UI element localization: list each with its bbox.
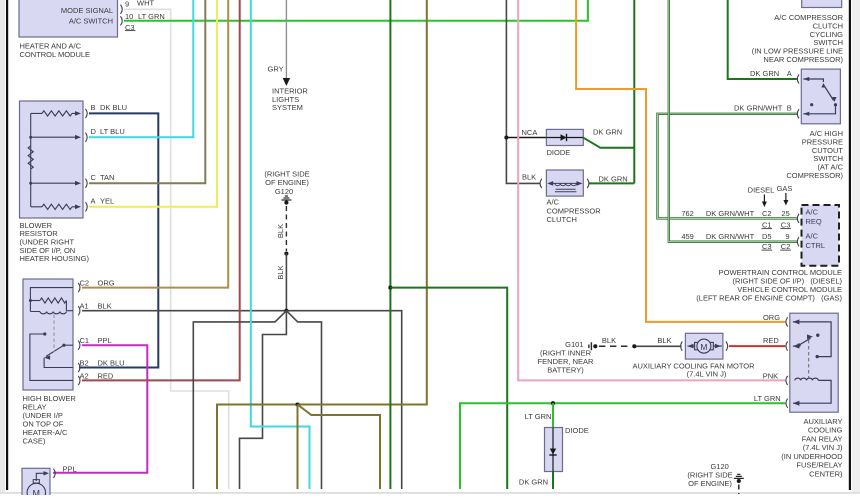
wire TAN bottom net	[217, 0, 427, 489]
svg-text:PPL: PPL	[63, 465, 77, 474]
svg-text:DK BLU: DK BLU	[100, 103, 127, 112]
svg-text:DIESEL: DIESEL	[748, 186, 775, 195]
resistor pin bracket	[86, 109, 88, 118]
svg-text:FUSE/RELAY: FUSE/RELAY	[796, 461, 842, 470]
svg-text:WHT: WHT	[137, 0, 154, 8]
svg-text:COMPRESSOR: COMPRESSOR	[547, 206, 602, 215]
resistor internal bus	[30, 113, 32, 206]
powertrain control module caption	[696, 268, 842, 302]
svg-text:OF ENGINE): OF ENGINE)	[688, 479, 732, 488]
junction DK GRN	[388, 286, 392, 290]
diode2 bar	[549, 454, 556, 456]
relay switch arm arrow	[44, 355, 50, 359]
diode2 internal line	[552, 428, 554, 472]
svg-text:ORG: ORG	[763, 313, 780, 322]
fan relay coil	[795, 378, 819, 380]
switch arm diagonal	[823, 85, 833, 101]
fan relay RED lead	[793, 345, 799, 347]
fan motor shaft	[688, 345, 723, 347]
blower motor circle	[27, 483, 45, 500]
switch arm arrow down	[832, 97, 836, 102]
wire BLK dashed from G120	[285, 206, 287, 251]
svg-text:CLUTCH: CLUTCH	[547, 215, 577, 224]
wire GRY to interior lights	[285, 0, 287, 79]
ground G120 upper symbol	[281, 196, 291, 200]
junction BLK diode tap	[504, 135, 508, 139]
junction BLK dashed-solid	[284, 251, 288, 255]
svg-text:BLK: BLK	[522, 173, 536, 182]
relay coil element	[40, 312, 66, 314]
svg-text:A/C: A/C	[806, 208, 819, 217]
connector C1 underline	[762, 228, 773, 230]
clutch coil bumps	[555, 183, 577, 185]
wire TAN branch down	[297, 405, 299, 490]
relay pin bracket	[78, 283, 80, 292]
svg-text:PNK: PNK	[763, 372, 778, 381]
wire DK GRN/WHT circuit 459	[669, 0, 798, 242]
heater module caption	[20, 42, 91, 60]
wire DK BLU pin B	[79, 113, 158, 367]
wire LT GRN to diode	[552, 403, 554, 427]
wire DK GRN branch right	[390, 288, 507, 489]
svg-text:10: 10	[125, 12, 133, 21]
wire LT GRN bottom	[460, 403, 785, 489]
svg-text:25: 25	[781, 209, 789, 218]
clutch bracket right	[587, 179, 589, 188]
wire LT BLU pin D	[89, 0, 193, 137]
cycling switch caption	[752, 13, 844, 64]
wire PPL pin C1	[53, 345, 147, 473]
ground G120 upper dot	[284, 201, 288, 205]
svg-text:A2: A2	[80, 371, 89, 380]
blower motor M1	[22, 468, 50, 498]
relay resistor element	[30, 300, 40, 302]
row C internal wire	[31, 182, 76, 184]
svg-text:B: B	[787, 104, 792, 113]
resistor pin bracket	[86, 133, 88, 142]
wire DK GRN below diode	[552, 472, 554, 490]
wire DK GRN/WHT pin B	[658, 114, 798, 219]
svg-text:AUXILIARY: AUXILIARY	[803, 417, 842, 426]
wire WHT from pin 9	[124, 9, 229, 489]
svg-text:COOLING: COOLING	[808, 426, 843, 435]
fan relay pin bracket	[786, 317, 788, 326]
a/c high pressure cutout switch S2	[801, 69, 840, 124]
svg-text:CENTER): CENTER)	[809, 469, 843, 478]
wire BLK to junction	[285, 254, 287, 311]
switch pin B arrow	[803, 112, 809, 116]
blower resistor caption	[20, 221, 90, 263]
interior lights system note	[272, 86, 308, 112]
fan motor brush left	[695, 342, 699, 349]
svg-text:C2: C2	[80, 279, 90, 288]
relay pin bracket	[78, 376, 80, 385]
high pressure cutout caption	[786, 129, 843, 180]
relay switch B2 lead	[44, 358, 73, 368]
svg-text:(7.4L VIN J): (7.4L VIN J)	[803, 443, 843, 452]
svg-text:G120: G120	[275, 187, 293, 196]
pcm pin bracket 762	[797, 214, 799, 223]
pin A bracket	[797, 74, 799, 83]
svg-text:DIODE: DIODE	[547, 148, 571, 157]
blower motor pin arrow	[44, 471, 50, 475]
relay actuator dashed	[53, 315, 55, 353]
svg-text:A/C: A/C	[806, 232, 819, 241]
blower motor stem	[33, 480, 39, 483]
fan relay arm arrow	[807, 334, 813, 339]
switch pin A shaft	[803, 79, 823, 82]
clutch bracket left	[540, 179, 542, 188]
resistor element row B	[42, 111, 72, 116]
junction BLK center	[284, 309, 288, 313]
svg-text:DK GRN/WHT: DK GRN/WHT	[706, 209, 755, 218]
fan motor arrow right	[715, 344, 721, 349]
svg-text:762: 762	[681, 209, 694, 218]
svg-text:C2: C2	[762, 209, 772, 218]
diode D2	[545, 428, 563, 472]
svg-text:DK BLU: DK BLU	[98, 359, 125, 368]
svg-text:CTRL: CTRL	[806, 241, 826, 250]
svg-text:C1: C1	[762, 220, 772, 229]
diode D1	[546, 129, 583, 145]
relay internal C2 lead	[30, 288, 73, 312]
svg-text:REQ: REQ	[806, 217, 822, 226]
fan motor bracket left	[681, 342, 683, 351]
svg-text:TAN: TAN	[100, 173, 114, 182]
pin 10 bracket	[121, 16, 123, 25]
svg-text:DK GRN/WHT: DK GRN/WHT	[734, 104, 783, 113]
svg-text:DK GRN: DK GRN	[599, 174, 628, 183]
fan relay arm tip dot	[816, 334, 819, 337]
svg-text:C3: C3	[762, 242, 772, 251]
svg-text:RED: RED	[763, 336, 779, 345]
pin B arrow	[75, 111, 81, 116]
wire BLK dashed G120 lower	[738, 485, 740, 495]
svg-text:(LEFT REAR OF ENGINE COMPT): (LEFT REAR OF ENGINE COMPT) (GAS)	[696, 293, 842, 302]
wire BLK junction down jog	[240, 311, 287, 489]
fan motor circle	[697, 339, 711, 353]
blower resistor R1	[20, 101, 84, 218]
wire BLK a/c vertical	[506, 0, 540, 183]
wire LT GRN from pin 10	[124, 0, 588, 21]
gas arrow shaft	[785, 193, 787, 202]
auxiliary cooling fan motor M2	[685, 333, 723, 359]
diode symbol	[561, 134, 567, 140]
relay internal junction	[29, 299, 32, 302]
switch contact arrow up	[821, 83, 825, 88]
clutch arrow right	[577, 181, 583, 186]
svg-text:HEATER HOUSING): HEATER HOUSING)	[20, 254, 90, 263]
wire RED pin A2	[82, 0, 240, 380]
svg-text:BLK: BLK	[602, 336, 616, 345]
svg-text:CASE): CASE)	[23, 436, 46, 445]
resistor pin bracket	[86, 179, 88, 188]
svg-text:BLK: BLK	[276, 224, 285, 238]
fan relay caption	[781, 417, 843, 479]
pin 9 bracket	[121, 5, 123, 14]
diesel arrow shaft	[763, 195, 765, 204]
svg-text:PPL: PPL	[98, 336, 112, 345]
svg-text:MODE SIGNAL: MODE SIGNAL	[61, 6, 113, 15]
svg-text:B: B	[91, 103, 96, 112]
wire DK GRN from clutch	[589, 182, 635, 184]
svg-text:9: 9	[785, 232, 789, 241]
high blower relay caption	[23, 394, 77, 446]
relay pin bracket	[78, 363, 80, 372]
fan motor brush right	[710, 342, 714, 349]
svg-text:M: M	[33, 489, 41, 496]
diode bar	[566, 134, 568, 141]
connector C3 underline	[125, 30, 136, 32]
svg-text:M: M	[700, 342, 707, 352]
relay switch arm	[46, 345, 64, 356]
svg-text:LT GRN: LT GRN	[138, 12, 165, 21]
ground G101 dot	[593, 344, 597, 348]
fan relay actuator dashed	[808, 340, 810, 378]
high blower relay K1	[23, 279, 73, 390]
svg-text:CONTROL MODULE: CONTROL MODULE	[20, 50, 91, 59]
svg-text:B2: B2	[80, 359, 89, 368]
junction on bus row D	[29, 136, 32, 139]
svg-text:DK GRN: DK GRN	[750, 69, 779, 78]
switch center dot	[810, 103, 813, 106]
svg-text:BLK: BLK	[657, 336, 671, 345]
svg-text:D: D	[91, 127, 97, 136]
wire DK GRN vertical a/c	[633, 0, 635, 183]
svg-text:(7.4L VIN J): (7.4L VIN J)	[687, 370, 727, 379]
svg-text:GAS: GAS	[777, 184, 793, 193]
pin B bracket	[797, 109, 799, 118]
a/c compressor clutch cycling switch S1	[802, 0, 842, 8]
svg-text:LT GRN: LT GRN	[754, 394, 781, 403]
svg-text:DK GRN/WHT: DK GRN/WHT	[706, 232, 755, 241]
wire BLK dashed G101	[599, 345, 631, 347]
diesel arrow	[762, 202, 767, 208]
wire LT BLU second	[251, 0, 310, 489]
diode internal line	[546, 137, 583, 139]
svg-text:DK GRN: DK GRN	[519, 478, 548, 487]
blower motor pin bracket	[54, 469, 56, 478]
svg-text:DIODE: DIODE	[565, 426, 589, 435]
wire BLK to fan motor	[636, 345, 682, 347]
powertrain control module U2 dashed	[802, 205, 840, 266]
svg-text:(IN UNDERHOOD: (IN UNDERHOOD	[781, 452, 843, 461]
blower motor internal lead	[36, 473, 46, 481]
svg-text:LT GRN: LT GRN	[525, 412, 552, 421]
wire NCA to diode	[506, 137, 546, 139]
fan relay contact dot	[816, 355, 819, 358]
switch pin A arrow	[803, 77, 809, 81]
pin D arrow	[75, 135, 81, 140]
fan relay pin bracket	[786, 376, 788, 385]
resistor element row A	[42, 204, 72, 209]
svg-text:C: C	[91, 173, 97, 182]
fan relay ORG arrow	[793, 319, 800, 324]
connector C3 underline	[780, 228, 791, 230]
diode2 symbol	[550, 449, 556, 455]
switch contact dot B	[834, 103, 837, 106]
svg-text:A: A	[91, 196, 96, 205]
svg-text:A: A	[787, 69, 792, 78]
svg-text:C2: C2	[781, 242, 791, 251]
connector C2b underline	[780, 249, 791, 251]
a/c compressor clutch L1	[546, 170, 583, 196]
clutch core bars	[555, 189, 577, 192]
svg-text:DK GRN: DK GRN	[593, 128, 622, 137]
fan motor arrow left	[688, 344, 694, 349]
wire DK GRN from diode	[583, 138, 634, 148]
relay switch A2 contact	[30, 334, 73, 380]
svg-text:9: 9	[125, 0, 129, 9]
resistor pin bracket	[86, 202, 88, 211]
wire BLK junction right	[286, 311, 401, 489]
svg-text:ORG: ORG	[98, 279, 115, 288]
gas arrow	[783, 200, 788, 206]
svg-text:C1: C1	[80, 336, 90, 345]
relay pin bracket	[78, 306, 80, 315]
wire BLK junction left diagonal	[193, 311, 286, 489]
clutch internal line	[551, 182, 579, 184]
svg-text:C3: C3	[781, 220, 791, 229]
row D internal wire	[31, 136, 76, 138]
wire ORG pin C2	[82, 0, 228, 288]
wire ORG a/c	[576, 0, 785, 322]
svg-text:YEL: YEL	[100, 196, 114, 205]
wire DK GRN to pin A	[728, 0, 798, 79]
heater and a/c control module U1	[19, 0, 118, 37]
wire BLK junction right diagonal	[286, 311, 321, 489]
relay internal A1 lead	[30, 301, 73, 312]
svg-text:FAN RELAY: FAN RELAY	[802, 434, 843, 443]
pin A arrow	[75, 205, 81, 210]
wire BLK pin A1	[82, 310, 286, 312]
fan relay pin bracket	[786, 399, 788, 408]
ground G101 note	[538, 348, 594, 374]
svg-text:GRY: GRY	[268, 65, 284, 74]
resistor element vertical	[28, 146, 33, 169]
relay switch pivot	[62, 344, 65, 347]
relay pin bracket	[78, 341, 80, 350]
auxiliary cooling fan relay K2	[790, 313, 838, 412]
svg-text:BLK: BLK	[276, 265, 285, 279]
fan relay coil lead	[793, 380, 831, 403]
pin C arrow	[75, 181, 81, 186]
fan relay ORG contact	[793, 322, 831, 357]
svg-text:A/C SWITCH: A/C SWITCH	[69, 17, 113, 26]
junction TAN bottom	[295, 402, 299, 406]
svg-text:RED: RED	[98, 371, 114, 380]
fan relay RED arrow	[793, 344, 800, 349]
svg-text:A/C: A/C	[547, 198, 560, 207]
interior lights arrow	[283, 78, 291, 86]
wire YEL pin A	[89, 0, 217, 207]
fan relay LT GRN arrow	[793, 401, 800, 406]
wire PNK vertical	[518, 0, 785, 380]
junction LT GRN	[551, 401, 555, 405]
fan motor bracket right	[726, 342, 728, 351]
fan relay pivot dot	[797, 343, 800, 346]
svg-text:459: 459	[681, 232, 694, 241]
ground G120 lower symbol	[734, 474, 744, 478]
relay A2 contact dot	[43, 332, 46, 335]
wire TAN branch diagonal	[298, 405, 381, 490]
svg-text:LT BLU: LT BLU	[100, 127, 125, 136]
svg-text:A1: A1	[80, 302, 89, 311]
svg-text:OF ENGINE): OF ENGINE)	[265, 178, 309, 187]
wire TAN pin C	[89, 0, 205, 183]
a/c compressor clutch caption	[547, 198, 602, 225]
ground G120 lower note	[687, 471, 732, 489]
svg-text:BATTERY): BATTERY)	[547, 365, 584, 374]
clutch arrow left	[547, 181, 553, 186]
junction BLK G101	[632, 344, 636, 348]
svg-text:COMPRESSOR): COMPRESSOR)	[786, 171, 843, 180]
connector C3b underline	[762, 249, 773, 251]
pcm pin bracket 459	[797, 237, 799, 246]
fan relay arm	[799, 338, 811, 345]
relay switch C1 lead	[64, 344, 73, 346]
wire DK GRN long vertical	[389, 0, 391, 489]
svg-text:NEAR COMPRESSOR): NEAR COMPRESSOR)	[763, 55, 843, 64]
wire RED fan motor	[729, 345, 785, 347]
switch pin B lead	[803, 105, 835, 114]
ground G120 lower dot	[737, 479, 741, 483]
fan relay pin bracket	[786, 342, 788, 351]
junction on bus row C	[29, 182, 32, 185]
svg-text:SYSTEM: SYSTEM	[272, 103, 303, 112]
svg-text:NCA: NCA	[522, 128, 538, 137]
ground G120 upper note	[264, 170, 309, 188]
svg-text:BLK: BLK	[98, 302, 112, 311]
ground G101 symbol	[589, 342, 592, 350]
svg-text:D5: D5	[762, 232, 772, 241]
